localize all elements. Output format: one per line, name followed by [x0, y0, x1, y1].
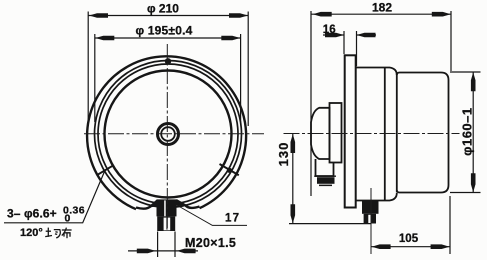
dim 16 arrow left	[325, 33, 344, 38]
M20 extension left	[157, 232, 159, 258]
nut facet highlight	[164, 200, 166, 216]
dim phi195 arrow left	[95, 36, 114, 41]
case section behind flange top	[356, 68, 397, 76]
bump nut	[317, 177, 335, 184]
thread slot white	[164, 218, 171, 231]
dim 16 line left part	[323, 34, 344, 36]
front view horizontal center line	[84, 133, 264, 135]
svg-text:16: 16	[323, 24, 336, 36]
dim 130 bottom extension	[289, 223, 371, 225]
rear bump inner rect	[330, 103, 342, 163]
bottom boss wing left	[136, 201, 157, 209]
front view dial window circle	[105, 71, 232, 198]
svg-text:M20×1.5: M20×1.5	[185, 236, 236, 250]
stem center line (side view)	[370, 188, 372, 254]
M20 extension right	[174, 232, 176, 258]
front view center boss inner circle	[161, 127, 175, 141]
dim phi210 extension left	[87, 12, 89, 127]
dim 16 arrow right	[357, 33, 376, 38]
dim 16 extension right	[356, 31, 358, 66]
dim phi195 extension right	[240, 34, 242, 122]
side view horizontal center line	[284, 133, 460, 135]
svg-text:17: 17	[225, 212, 240, 224]
dim phi160 line	[472, 72, 474, 193]
dim 16 line right part	[357, 34, 377, 36]
svg-text:0: 0	[65, 212, 71, 224]
hole callout 3-phi6.6	[4, 172, 105, 240]
svg-text:130: 130	[276, 142, 291, 167]
front view bolt-circle ring phi195	[95, 61, 242, 208]
dim 182 extension right	[450, 11, 452, 71]
side thread slot white	[368, 215, 371, 224]
threaded stem (side view)	[364, 214, 376, 224]
mounting flange	[345, 55, 356, 207]
svg-text:105: 105	[399, 233, 419, 245]
stem hex nut (side view)	[362, 201, 379, 214]
dim phi160 arrow bottom	[471, 173, 476, 192]
mounting hole dot top	[165, 58, 171, 64]
dim 130 line	[292, 134, 294, 224]
dim phi160 arrow top	[471, 72, 476, 91]
mounting hole dot lower-right	[227, 168, 232, 173]
dim phi210 arrow right	[229, 13, 248, 18]
svg-text:φ 195±0.4: φ 195±0.4	[135, 24, 192, 38]
dim 130 arrow bottom	[291, 204, 296, 223]
boss wedge right	[176, 201, 187, 207]
dim phi160 bottom extension	[450, 192, 481, 194]
dim phi210 extension right	[247, 12, 249, 127]
dim phi160 top extension	[450, 71, 481, 73]
svg-text:φ160–1: φ160–1	[460, 107, 475, 155]
front view vertical center line	[166, 44, 168, 231]
hanzi bu (spread)	[62, 228, 72, 239]
mounting hole tick lower-left	[97, 165, 114, 175]
dim phi195 arrow right	[221, 36, 240, 41]
bottom boss wing right	[176, 200, 199, 208]
bump nut bottom bar	[319, 185, 332, 187]
bump washer line	[314, 175, 336, 177]
dim phi210 line	[88, 15, 248, 17]
hanzi jun (uniform)	[45, 228, 60, 238]
svg-text:φ 210: φ 210	[147, 2, 179, 16]
threaded stem (front view)	[157, 216, 175, 231]
dim 182 arrow right	[432, 12, 451, 17]
dim 182 line	[311, 13, 451, 15]
dim phi195 line	[95, 37, 241, 39]
body front edge line	[396, 73, 398, 193]
dim 105 line	[371, 246, 450, 248]
M20 arrow right	[177, 249, 196, 254]
leader line for 17 (nut width)	[178, 206, 248, 226]
front view center boss outer circle	[158, 124, 179, 145]
rear bump housing	[311, 108, 330, 159]
front view outer case circle phi210	[87, 56, 246, 209]
dim phi210 arrow left	[89, 13, 108, 18]
case section behind flange bottom	[356, 193, 397, 201]
svg-text:182: 182	[372, 1, 392, 15]
dim 182 extension left	[310, 11, 312, 196]
dim 105 arrow left	[372, 244, 391, 249]
thread slot center strip	[166, 218, 167, 230]
mounting hole tick lower-right	[220, 164, 239, 175]
boss wedge left	[150, 201, 158, 207]
callout leader	[4, 172, 105, 223]
front view bezel ring circle	[98, 64, 238, 204]
dim 16 extension left	[343, 31, 345, 54]
dim 130 arrow top	[291, 134, 296, 153]
main body outline	[397, 73, 449, 193]
bump neck	[316, 159, 334, 176]
step edge line	[384, 68, 386, 201]
stem hex nut (front view)	[157, 199, 177, 216]
dim 182 arrow left	[313, 12, 332, 17]
dim 105 arrow right	[431, 244, 450, 249]
M20 arrow left	[137, 249, 156, 254]
M20 dim line	[128, 250, 198, 252]
dim 105 extension right	[449, 196, 451, 254]
svg-text:3– φ6.6+: 3– φ6.6+	[7, 207, 57, 221]
dim M20x1.5	[128, 232, 198, 258]
dim phi195 extension left	[94, 34, 96, 122]
svg-text:120°: 120°	[20, 227, 43, 239]
